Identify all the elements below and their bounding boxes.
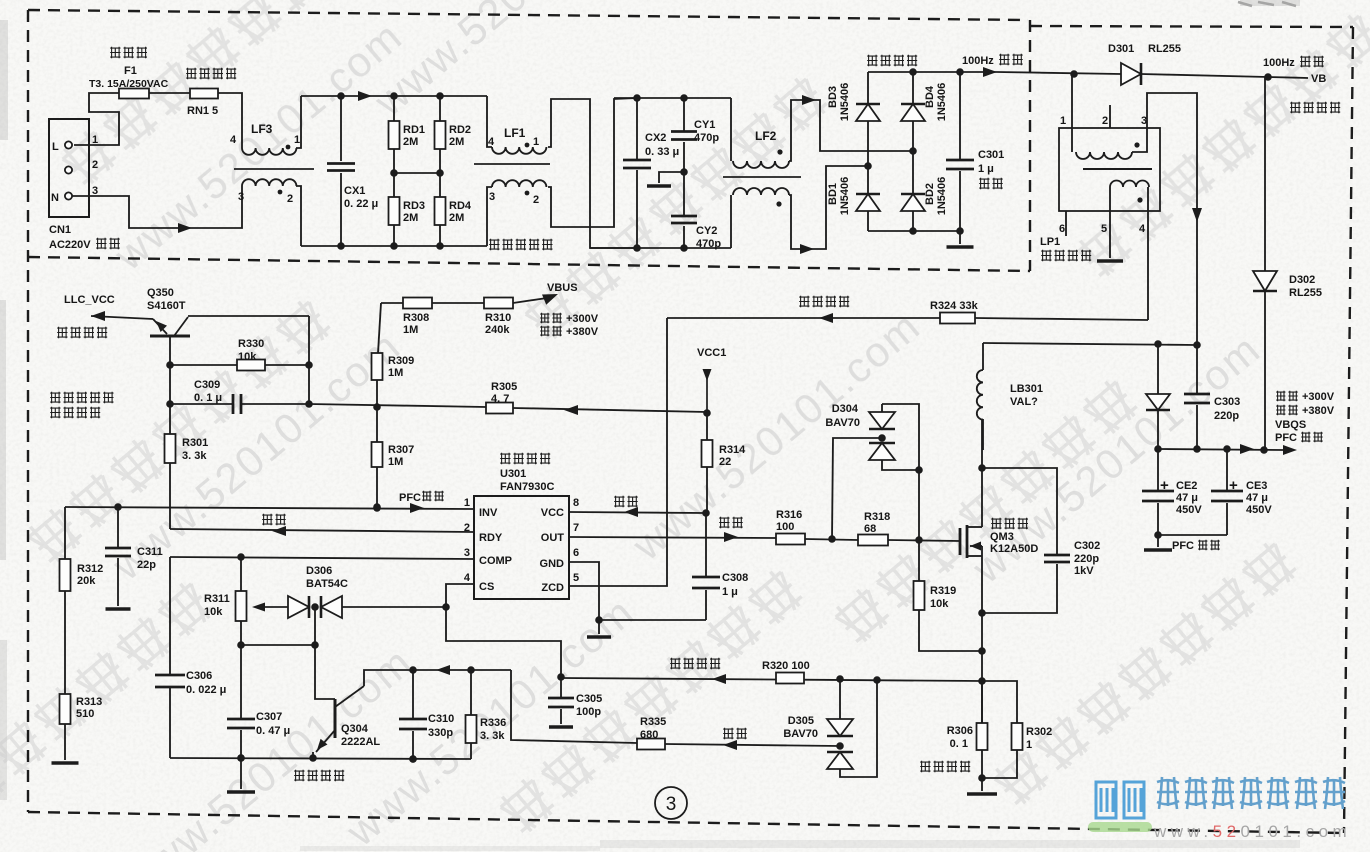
- diode D305 BAV70: [839, 679, 841, 719]
- svg-text:1 μ: 1 μ: [722, 586, 738, 598]
- Q350 collector wire: [188, 315, 309, 317]
- svg-text:680: 680: [640, 729, 658, 741]
- diode BD3: [867, 72, 869, 104]
- label rectifier bridge: [867, 55, 917, 66]
- svg-text:10k: 10k: [204, 606, 223, 618]
- svg-text:2: 2: [287, 193, 293, 205]
- op-amp U301 FAN7930C box: [474, 496, 569, 599]
- ground under C305: [549, 725, 573, 729]
- svg-text:PFC: PFC: [399, 492, 421, 504]
- svg-text:R335: R335: [640, 716, 666, 728]
- svg-text:LB301: LB301: [1010, 383, 1043, 395]
- svg-text:BD4: BD4: [924, 85, 936, 108]
- svg-text:5: 5: [573, 572, 579, 584]
- crossover wire LF1 pin1 to lower rail: [548, 99, 637, 248]
- resistor R306: [981, 681, 983, 723]
- top bus of X-cap section: [301, 95, 487, 97]
- wire LF3 pin2 down to bottom bus: [296, 186, 301, 246]
- capacitor C306: [169, 557, 171, 675]
- CE bottom bus and ground: [1158, 534, 1227, 536]
- svg-text:AC220V: AC220V: [49, 239, 91, 251]
- svg-text:0. 1: 0. 1: [950, 738, 968, 750]
- svg-text:C305: C305: [576, 693, 602, 705]
- svg-text:2M: 2M: [403, 212, 418, 224]
- connector CN1: [49, 119, 89, 217]
- svg-text:RN1 5: RN1 5: [187, 105, 218, 117]
- svg-text:R308: R308: [403, 312, 429, 324]
- svg-text:10k: 10k: [238, 351, 257, 363]
- capacitor CY2: [683, 172, 685, 216]
- label to main power: [57, 327, 107, 338]
- svg-text:2: 2: [1102, 115, 1108, 127]
- LP1 primary winding: [1076, 152, 1132, 159]
- svg-text:1N5406: 1N5406: [839, 83, 851, 122]
- ground stub of CY junction: [659, 172, 684, 183]
- svg-text:R320 100: R320 100: [762, 660, 810, 672]
- svg-text:7: 7: [573, 522, 579, 534]
- transformer LP1 box: [1059, 128, 1160, 211]
- svg-text:BAV70: BAV70: [783, 728, 818, 740]
- svg-text:RD1: RD1: [403, 124, 425, 136]
- node line LB301 top: [983, 343, 1197, 345]
- capacitor C303: [1196, 345, 1198, 394]
- label pulse width control: [294, 770, 344, 781]
- green mark under logo: [1088, 822, 1152, 832]
- svg-text:S4160T: S4160T: [147, 300, 186, 312]
- RDY bus (switch): [170, 529, 474, 532]
- svg-text:R312: R312: [77, 563, 103, 575]
- resistor R319: [918, 540, 920, 581]
- site logo book icon: [1096, 782, 1144, 818]
- svg-text:450V: 450V: [1176, 504, 1202, 516]
- label anti-interference circuit: [489, 239, 552, 250]
- svg-text:N: N: [51, 192, 59, 204]
- bottom bus of X-cap section: [301, 245, 487, 247]
- LP1 pin2 stub: [1109, 105, 1111, 128]
- bus R311 to Q304 base: [241, 644, 315, 646]
- capacitor C307: [240, 645, 242, 719]
- svg-text:2: 2: [533, 194, 539, 206]
- svg-text:R301: R301: [182, 437, 208, 449]
- wire bus to LF1 pin4: [487, 96, 492, 147]
- bottom dashed border: [28, 812, 1344, 833]
- EMI box bottom divider: [28, 257, 1030, 271]
- overcurrent protect wire: [561, 678, 982, 681]
- svg-text:OUT: OUT: [541, 532, 565, 544]
- svg-text:2: 2: [464, 522, 470, 534]
- label standby 300V / on 380V: [540, 313, 562, 323]
- svg-text:LF2: LF2: [755, 129, 777, 143]
- svg-text:10k: 10k: [930, 598, 949, 610]
- wire LF3 pin1 up to bus: [296, 96, 301, 148]
- svg-text:D305: D305: [788, 715, 814, 727]
- svg-text:C311: C311: [137, 546, 163, 558]
- resistor R310: [432, 302, 484, 304]
- svg-text:BD2: BD2: [924, 183, 936, 205]
- diode D301: [1121, 63, 1141, 85]
- svg-text:D301: D301: [1108, 43, 1134, 55]
- svg-text:6: 6: [573, 547, 579, 559]
- wire D306 centre down: [314, 607, 316, 645]
- capacitor C302: [982, 468, 1057, 555]
- svg-text:2M: 2M: [449, 212, 464, 224]
- wire bridge to D301: [997, 72, 1121, 74]
- svg-text:C309: C309: [194, 379, 220, 391]
- pin4 CS wire: [446, 584, 474, 607]
- svg-text:C310: C310: [428, 713, 454, 725]
- label main power supply control: [50, 392, 113, 403]
- svg-text:R318: R318: [864, 511, 890, 523]
- label feedback: [723, 728, 747, 739]
- svg-text:3: 3: [238, 191, 244, 203]
- svg-text:0. 022 μ: 0. 022 μ: [186, 684, 226, 696]
- svg-text:1: 1: [1026, 739, 1032, 751]
- svg-text:1M: 1M: [388, 367, 403, 379]
- svg-text:QM3: QM3: [990, 531, 1014, 543]
- svg-text:R330: R330: [238, 338, 264, 350]
- svg-text:VCC1: VCC1: [697, 347, 726, 359]
- LP1 pin1 lead: [1071, 74, 1073, 152]
- svg-text:220p: 220p: [1214, 410, 1239, 422]
- svg-text:RL255: RL255: [1148, 43, 1181, 55]
- outer dashed border left edge: [27, 10, 29, 812]
- boost diode (D303): [1157, 344, 1159, 394]
- svg-text:RL255: RL255: [1289, 287, 1322, 299]
- wire D301 to VB: [1141, 74, 1268, 77]
- diode D302: [1264, 77, 1266, 271]
- svg-text:4: 4: [488, 136, 495, 148]
- diode BD2: [912, 151, 914, 194]
- svg-text:470p: 470p: [694, 132, 719, 144]
- svg-text:R305: R305: [491, 381, 517, 393]
- wire collector down right side: [308, 316, 310, 404]
- resistor RN1 (limiter): [190, 89, 218, 99]
- svg-text:+380V: +380V: [566, 326, 599, 338]
- svg-text:R324 33k: R324 33k: [930, 300, 979, 312]
- capacitor C311: [117, 507, 119, 548]
- svg-text:L: L: [52, 141, 59, 153]
- svg-text:VAL?: VAL?: [1010, 396, 1038, 408]
- wire N pin to LF3 bottom: [72, 186, 242, 228]
- diode D304 BAV70: [832, 438, 882, 539]
- svg-text:1: 1: [294, 134, 300, 146]
- capacitor C310: [412, 670, 414, 719]
- svg-text:1: 1: [533, 136, 539, 148]
- svg-text:240k: 240k: [485, 324, 510, 336]
- svg-text:BAV70: BAV70: [825, 417, 860, 429]
- svg-text:C306: C306: [186, 670, 212, 682]
- resistor R308: [381, 302, 403, 304]
- LP1 pin3 wire over to drop: [1132, 93, 1197, 345]
- crossover wire LF1 pin2 to upper rail: [548, 98, 637, 227]
- svg-text:C308: C308: [722, 572, 748, 584]
- svg-text:+300V: +300V: [1302, 391, 1335, 403]
- svg-text:GND: GND: [540, 558, 565, 570]
- svg-text:8: 8: [573, 497, 579, 509]
- transistor Q304: [315, 645, 335, 699]
- svg-text:3: 3: [464, 547, 470, 559]
- VCC supply wire: [569, 512, 706, 513]
- svg-text:CX1: CX1: [344, 185, 365, 197]
- resistor R318: [858, 535, 888, 546]
- svg-text:D306: D306: [306, 565, 332, 577]
- svg-text:47 μ: 47 μ: [1246, 492, 1268, 504]
- svg-text:100p: 100p: [576, 706, 601, 718]
- svg-text:2M: 2M: [403, 136, 418, 148]
- svg-text:Q304: Q304: [341, 723, 369, 735]
- PFC output rail: [1158, 449, 1283, 450]
- svg-text:FAN7930C: FAN7930C: [500, 481, 554, 493]
- ground under R306: [981, 778, 983, 791]
- svg-text:3. 3k: 3. 3k: [182, 450, 207, 462]
- ground of R313: [64, 724, 66, 760]
- svg-text:510: 510: [76, 708, 94, 720]
- resistor R330: [170, 364, 237, 366]
- diode BD4: [912, 72, 914, 104]
- svg-text:BD1: BD1: [827, 183, 839, 205]
- resistor R309: [378, 303, 381, 353]
- wire LF2 bottom to bridge AC2: [789, 166, 868, 249]
- resistor R335: [637, 739, 665, 750]
- bottom rail CX2/CY2: [590, 247, 731, 249]
- svg-text:PFC: PFC: [1172, 540, 1194, 552]
- svg-text:100: 100: [776, 521, 794, 533]
- svg-text:CE3: CE3: [1246, 480, 1267, 492]
- svg-text:RD3: RD3: [403, 200, 425, 212]
- svg-text:Q350: Q350: [147, 287, 174, 299]
- svg-text:RDY: RDY: [479, 532, 503, 544]
- wire LF1 pin3 to bottom bus: [487, 187, 492, 246]
- EMI box right edge: [1029, 20, 1031, 271]
- capacitor C305: [560, 677, 562, 698]
- resistor RD1: [393, 96, 395, 121]
- diode D306 BAT54C: [288, 596, 309, 618]
- svg-text:4: 4: [464, 572, 471, 584]
- svg-text:T3. 15A/250VAC: T3. 15A/250VAC: [89, 78, 169, 90]
- svg-text:RD4: RD4: [449, 200, 472, 212]
- svg-text:450V: 450V: [1246, 504, 1272, 516]
- middle bus RD junction: [393, 149, 395, 197]
- svg-text:ZCD: ZCD: [541, 582, 564, 594]
- potentiometer R311: [240, 557, 242, 591]
- svg-text:LF3: LF3: [251, 122, 273, 136]
- svg-text:3: 3: [489, 191, 495, 203]
- svg-text:VBUS: VBUS: [547, 282, 578, 294]
- wire LF2 top to bridge AC1: [789, 100, 913, 161]
- svg-text:22: 22: [719, 456, 731, 468]
- bottom control bus: [170, 758, 471, 759]
- wire RN1 to LF3: [218, 93, 242, 148]
- svg-text:LF1: LF1: [504, 126, 526, 140]
- svg-text:47 μ: 47 μ: [1176, 492, 1198, 504]
- svg-text:CN1: CN1: [49, 224, 71, 236]
- svg-text:470p: 470p: [696, 238, 721, 250]
- svg-text:CY1: CY1: [694, 119, 715, 131]
- svg-text:LLC_VCC: LLC_VCC: [64, 294, 115, 306]
- resistor R305 line: [309, 404, 486, 407]
- svg-text:+300V: +300V: [566, 313, 599, 325]
- svg-text:R307: R307: [388, 444, 414, 456]
- resistor R307: [376, 380, 378, 442]
- svg-text:4: 4: [230, 134, 237, 146]
- svg-text:0. 47 μ: 0. 47 μ: [256, 725, 290, 737]
- svg-text:4. 7: 4. 7: [491, 393, 509, 405]
- resistor R320: [776, 673, 804, 684]
- resistor RD3: [389, 197, 400, 225]
- svg-text:1M: 1M: [388, 456, 403, 468]
- svg-text:R316: R316: [776, 509, 802, 521]
- svg-text:RD2: RD2: [449, 124, 471, 136]
- site logo CJK text: [1157, 777, 1345, 809]
- svg-text:1M: 1M: [403, 324, 418, 336]
- svg-text:1N5406: 1N5406: [936, 177, 948, 216]
- svg-text:1: 1: [1060, 115, 1066, 127]
- svg-text:www.520101.com: www.520101.com: [1153, 822, 1351, 841]
- svg-text:CX2: CX2: [645, 132, 666, 144]
- diode BD1: [867, 166, 869, 194]
- INV bus with PFC sense arrow: [65, 507, 474, 509]
- svg-text:1N5406: 1N5406: [839, 177, 851, 216]
- svg-text:F1: F1: [124, 65, 137, 77]
- svg-text:R336: R336: [480, 717, 506, 729]
- svg-text:U301: U301: [500, 468, 526, 480]
- svg-text:22p: 22p: [137, 559, 156, 571]
- resistor R336: [470, 670, 472, 715]
- svg-text:VB: VB: [1311, 73, 1326, 85]
- svg-text:VBQS: VBQS: [1275, 419, 1306, 431]
- svg-text:20k: 20k: [77, 575, 96, 587]
- capacitor CE3: [1226, 449, 1228, 491]
- svg-text:R313: R313: [76, 696, 102, 708]
- LP1 core: [1083, 168, 1152, 170]
- wire GND node to C308: [599, 619, 706, 621]
- COMP bus: [170, 557, 474, 559]
- top rail CX2/CY1: [614, 97, 731, 99]
- Q304 collector bus: [364, 670, 511, 686]
- svg-text:+380V: +380V: [1302, 405, 1335, 417]
- svg-text:4: 4: [1139, 223, 1146, 235]
- inductor LB301: [982, 343, 984, 370]
- resistor R313: [64, 591, 66, 694]
- capacitor C301: [959, 72, 961, 160]
- svg-text:CS: CS: [479, 581, 494, 593]
- svg-text:100Hz: 100Hz: [962, 55, 994, 67]
- MOSFET QM3: [959, 528, 962, 555]
- resistor R324: [940, 313, 975, 324]
- svg-text:CE2: CE2: [1176, 480, 1197, 492]
- capacitor CY1: [683, 98, 685, 131]
- page number 3: [655, 787, 687, 819]
- LP1 pin5 to ground: [1109, 187, 1111, 258]
- svg-text:68: 68: [864, 523, 876, 535]
- svg-text:VCC: VCC: [541, 507, 564, 519]
- svg-text:2: 2: [92, 159, 98, 171]
- resistor R316: [776, 534, 805, 545]
- Q350 base wire: [169, 336, 171, 365]
- svg-text:0. 22 μ: 0. 22 μ: [344, 198, 378, 210]
- svg-text:1kV: 1kV: [1074, 565, 1094, 577]
- capacitor C308: [705, 513, 707, 577]
- wire R324 to LP1 pin4: [975, 318, 1148, 320]
- resistor RD2: [439, 96, 441, 121]
- source column: [981, 546, 983, 723]
- bridge top bus: [868, 71, 997, 73]
- capacitor C309: [169, 365, 171, 404]
- wire D306 to CS node: [342, 606, 446, 608]
- svg-text:R311: R311: [204, 593, 230, 605]
- resistor RD4: [435, 197, 446, 225]
- svg-text:C307: C307: [256, 711, 282, 723]
- svg-text:R314: R314: [719, 444, 746, 456]
- VBUS arrow: [513, 298, 547, 303]
- OUT wire (drive): [569, 537, 776, 538]
- svg-text:C301: C301: [978, 149, 1004, 161]
- capacitor CX1: [340, 96, 342, 161]
- svg-text:BD3: BD3: [827, 86, 839, 108]
- GND pin6 wire and ground: [569, 562, 599, 620]
- svg-text:3: 3: [666, 794, 677, 815]
- svg-text:330p: 330p: [428, 727, 453, 739]
- svg-text:0. 33 μ: 0. 33 μ: [645, 146, 679, 158]
- label overcurrent sampling: [920, 761, 970, 772]
- svg-text:D302: D302: [1289, 274, 1315, 286]
- wire CS node down to C305: [446, 607, 561, 677]
- svg-text:6: 6: [1059, 223, 1065, 235]
- svg-text:R302: R302: [1026, 726, 1052, 738]
- svg-text:2222AL: 2222AL: [341, 736, 380, 748]
- svg-text:R310: R310: [485, 312, 511, 324]
- resistor R312: [64, 507, 66, 559]
- svg-text:INV: INV: [479, 507, 498, 519]
- resistor R302: [982, 681, 1017, 723]
- fuse F1: [119, 89, 149, 99]
- resistor R301: [169, 404, 171, 434]
- LP1 pin6 stub: [1065, 211, 1067, 236]
- wire to R335: [511, 670, 637, 743]
- right box top edge: [1030, 26, 1353, 27]
- wire fuse to RN1: [149, 92, 190, 94]
- rail output labels: [1276, 391, 1298, 401]
- svg-text:R319: R319: [930, 585, 956, 597]
- LP1 secondary winding: [1110, 181, 1149, 188]
- drain column: [981, 419, 983, 527]
- wire L pin to fuse: [74, 93, 119, 145]
- svg-text:0. 1 μ: 0. 1 μ: [194, 392, 222, 404]
- svg-text:1 μ: 1 μ: [978, 163, 994, 175]
- ground of C301: [959, 231, 961, 244]
- label to sub power: [1290, 102, 1340, 113]
- svg-text:1N5406: 1N5406: [936, 83, 948, 122]
- svg-text:CY2: CY2: [696, 225, 717, 237]
- svg-text:COMP: COMP: [479, 555, 512, 567]
- LP1 pin4 lead down to ZCD line: [1147, 187, 1149, 320]
- ZCD wire up: [569, 318, 667, 586]
- svg-text:BAT54C: BAT54C: [306, 578, 348, 590]
- right border edge: [1344, 27, 1353, 833]
- svg-text:K12A50D: K12A50D: [990, 543, 1038, 555]
- ground of C311: [106, 607, 131, 611]
- capacitor CX2: [636, 98, 638, 160]
- resistor R314: [706, 413, 708, 440]
- svg-text:3. 3k: 3. 3k: [480, 730, 505, 742]
- svg-text:100Hz: 100Hz: [1263, 57, 1295, 69]
- svg-text:5: 5: [1101, 223, 1107, 235]
- svg-text:LP1: LP1: [1040, 236, 1060, 248]
- svg-text:PFC: PFC: [1275, 432, 1297, 444]
- svg-text:R309: R309: [388, 355, 414, 367]
- svg-text:R306: R306: [947, 725, 973, 737]
- bridge bottom bus: [868, 230, 960, 232]
